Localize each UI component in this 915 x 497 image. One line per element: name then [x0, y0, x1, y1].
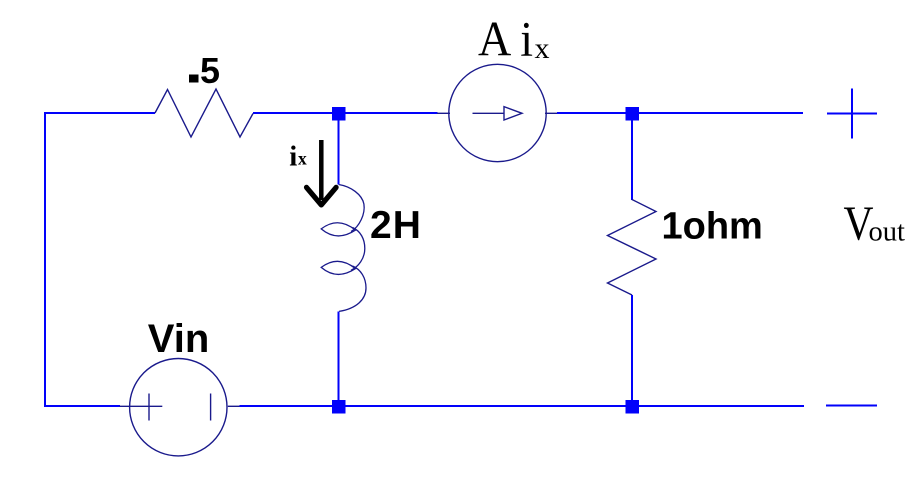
label ix — [289, 141, 307, 173]
wire inductor L1 to node C — [338, 312, 340, 402]
output plus sign — [827, 89, 877, 139]
label .5 — [189, 50, 220, 91]
current source U1 arrow line — [473, 112, 505, 114]
wire node B down to resistor R2 — [631, 119, 633, 200]
wire resistor to node A — [253, 112, 333, 114]
node D (bottom-right junction) — [626, 400, 640, 414]
wire node B to output plus — [638, 112, 803, 114]
wire left vertical — [44, 112, 46, 407]
svg-text:2H: 2H — [370, 204, 422, 247]
current source U1 right stub — [545, 112, 558, 114]
svg-text:5: 5 — [200, 50, 220, 91]
wire node A down to inductor L1 — [338, 119, 340, 185]
current source U1 circle — [449, 64, 546, 161]
label Vout — [844, 198, 906, 251]
wire top-left horizontal — [44, 112, 155, 114]
svg-text:1ohm: 1ohm — [662, 205, 763, 247]
voltage source Vin right stub — [228, 405, 240, 407]
voltage source Vin plus vertical — [148, 394, 150, 421]
wire node C to node D (bottom) — [345, 405, 626, 407]
wire resistor R2 to node D — [631, 295, 633, 401]
svg-text:i: i — [289, 141, 297, 173]
svg-text:x: x — [535, 32, 550, 65]
svg-text:x: x — [298, 148, 307, 168]
svg-text:Vin: Vin — [148, 317, 210, 361]
wire current source to node B — [557, 112, 627, 114]
voltage source Vin plus horizontal — [120, 405, 163, 407]
svg-text:A i: A i — [478, 12, 533, 67]
output minus sign — [826, 405, 877, 407]
current source U1 left stub — [437, 112, 450, 114]
label A ix — [478, 12, 550, 67]
inductor L1 coil arc 3 — [339, 266, 366, 311]
inductor L1 coil arc 1 — [339, 185, 364, 232]
current source U1 arrow head — [504, 107, 522, 120]
resistor R1 (.5) zigzag — [155, 89, 253, 137]
wire bottom-left to Vin — [44, 405, 120, 407]
current arrow ix head — [307, 187, 337, 205]
voltage source Vin minus electrode — [210, 394, 212, 421]
inductor L1 loop ellipse 1 — [321, 223, 355, 236]
node B (top-right junction) — [626, 107, 640, 121]
inductor L1 coil arc 2 — [351, 228, 365, 271]
wire node D to output minus — [638, 405, 804, 407]
voltage source Vin circle — [130, 359, 227, 456]
current arrow ix shaft — [319, 140, 324, 200]
resistor R2 (1ohm) zigzag — [608, 200, 657, 296]
inductor L1 loop ellipse 2 — [321, 261, 355, 274]
node C (bottom-left junction) — [332, 400, 346, 414]
wire node A to current source — [345, 112, 438, 114]
wire Vin to node C — [240, 405, 334, 407]
svg-text:out: out — [869, 217, 906, 248]
node A (top-left junction) — [332, 107, 346, 121]
